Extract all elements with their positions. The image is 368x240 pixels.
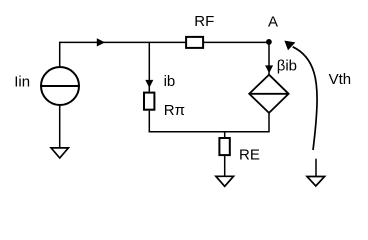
wire stub rail to RE xyxy=(224,132,226,138)
svg-text:A: A xyxy=(268,13,278,30)
ground (middle, under RE) xyxy=(216,176,234,186)
resistor Rpi xyxy=(144,93,154,110)
wire current source to ground xyxy=(59,105,61,147)
wire from RF to node A xyxy=(204,41,269,43)
bottom wire rail xyxy=(149,131,269,133)
resistor RF xyxy=(186,37,203,48)
svg-text:Vth: Vth xyxy=(329,71,352,88)
wire node A down to dependent source xyxy=(268,42,270,76)
svg-text:ib: ib xyxy=(164,73,176,90)
junction dot node A xyxy=(266,39,272,45)
svg-text:RE: RE xyxy=(239,147,260,164)
ground (left, under Iin) xyxy=(51,148,68,158)
resistor RE xyxy=(219,138,229,155)
svg-text:βib: βib xyxy=(277,58,297,75)
annotation curved arrow Vth xyxy=(284,41,317,150)
wire Rpi to bottom rail xyxy=(148,111,150,133)
dependent current source beta-ib (diamond) xyxy=(249,75,288,113)
wire branch down to Rpi xyxy=(148,42,150,91)
current source Iin xyxy=(41,67,79,105)
wire diamond bottom to rail xyxy=(268,112,270,132)
svg-text:Rπ: Rπ xyxy=(164,102,185,119)
current direction arrow on top wire xyxy=(97,38,105,46)
svg-text:RF: RF xyxy=(194,13,214,30)
current arrow of dependent source xyxy=(265,65,273,73)
svg-text:Iin: Iin xyxy=(14,73,30,90)
wire RE to ground xyxy=(224,156,226,176)
current arrow ib xyxy=(145,80,153,88)
wire from current source top to node, with corner xyxy=(60,42,186,66)
ground (right, under Vth arrow) xyxy=(307,159,325,186)
